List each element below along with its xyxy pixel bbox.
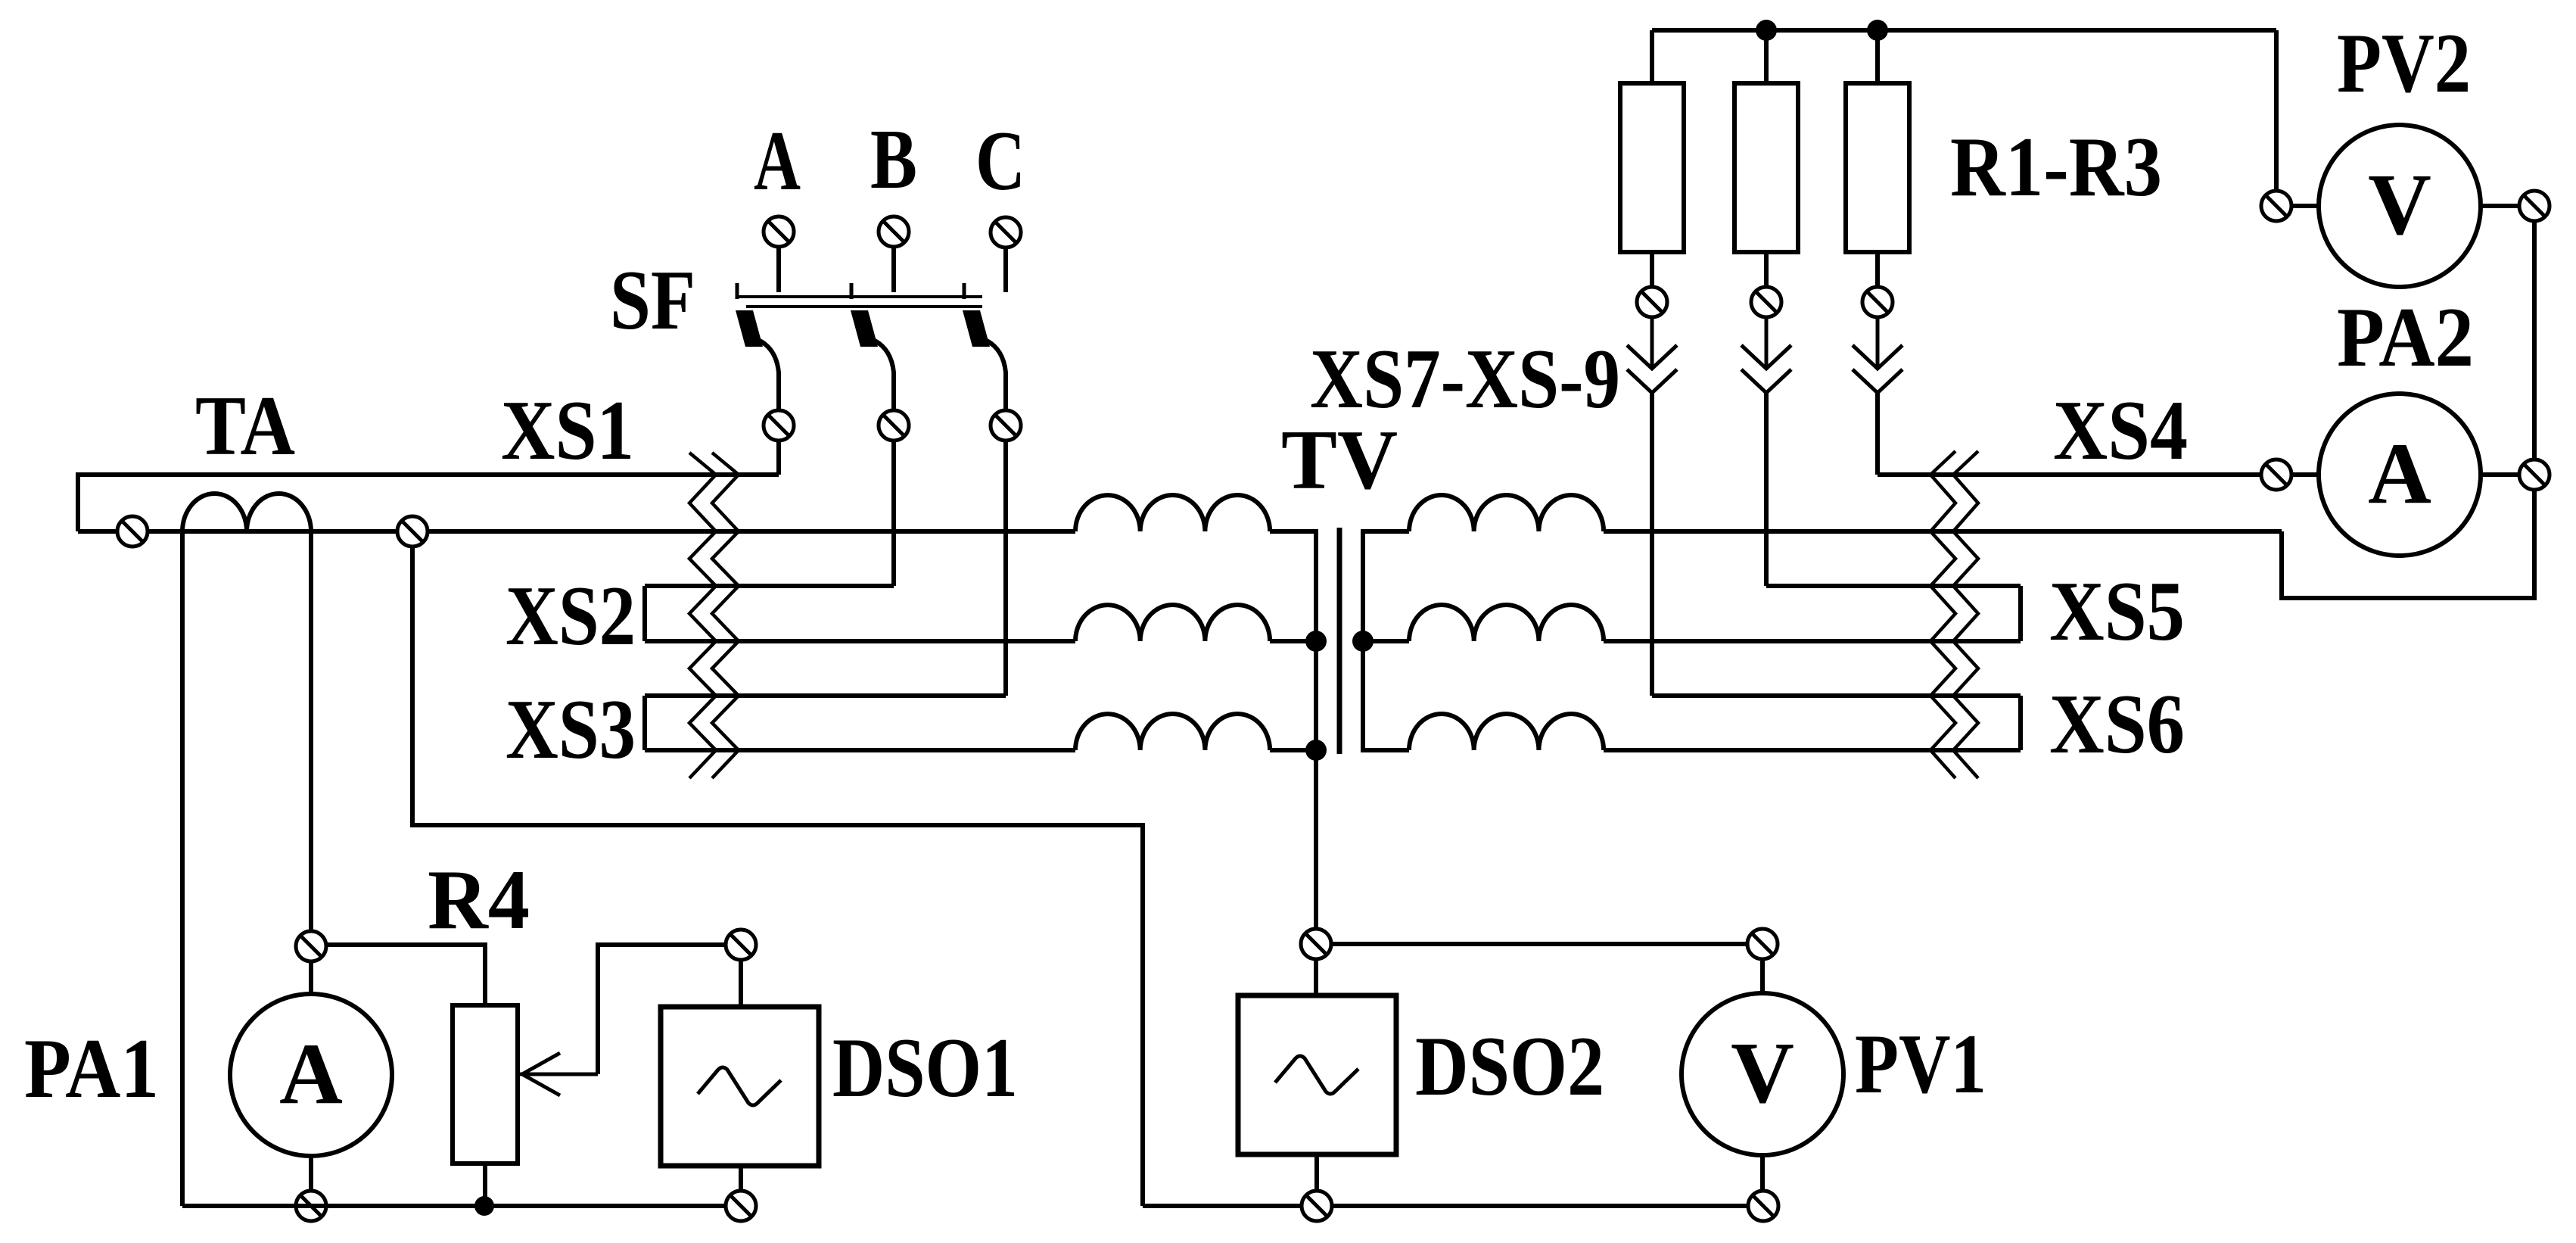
connector XS8 plug arrows <box>1765 318 1769 369</box>
breaker SF pole C contact wedge <box>963 310 990 347</box>
terminal DSO2 bottom <box>1302 1191 1332 1221</box>
resistor R3 <box>1875 30 1880 83</box>
wire TA secondary lead left (to PA1 bottom row) <box>180 531 185 1206</box>
terminal DSO2 top <box>1301 929 1331 959</box>
connector XS7 plug arrows <box>1876 318 1880 369</box>
wire DSO1 top terminal to box <box>739 961 743 1007</box>
wire R2 to row <box>1764 393 1769 586</box>
svg-text:XS3: XS3 <box>506 683 636 777</box>
junction top bus R2 <box>1756 20 1777 41</box>
svg-text:V: V <box>1731 1025 1794 1122</box>
terminal on bus left of TA <box>117 516 148 547</box>
wire TA secondary lead right (to PA1 top terminal) <box>309 531 313 931</box>
ammeter PA2 <box>2319 394 2481 556</box>
wire TA mid tap down, across and down to DSO2/PV1 bottom row <box>412 547 1143 1206</box>
svg-text:XS2: XS2 <box>506 569 636 663</box>
terminal DSO1 top <box>726 930 756 960</box>
svg-text:R4: R4 <box>428 853 530 947</box>
svg-text:A: A <box>279 1026 343 1123</box>
svg-text:PA2: PA2 <box>2337 291 2474 385</box>
resistor R2 <box>1764 30 1769 83</box>
breaker SF pole B contact wedge <box>851 310 878 347</box>
breaker SF pole A moving arm <box>760 341 779 410</box>
wire row from R2 <box>1766 584 2021 588</box>
transformer TV primary top coil <box>1075 495 1270 531</box>
wire TV secondary common vertical <box>1361 529 1365 752</box>
terminal PA2 left (XS4) <box>2261 460 2291 490</box>
svg-text:V: V <box>2368 157 2431 254</box>
wire PV2 feed from top bus <box>2274 30 2279 191</box>
wire XS3 bracket vertical <box>642 696 647 750</box>
svg-text:SF: SF <box>610 254 695 347</box>
wire PV1 meter to bottom terminal <box>1760 1155 1765 1191</box>
terminal on bus right of TA <box>397 516 428 547</box>
wire PV2 left terminal to meter <box>2291 204 2319 208</box>
breaker SF pole A contact wedge <box>736 310 763 347</box>
wire row from R1 <box>1652 693 2021 698</box>
connector XS4-XS6 zigzag line 2 <box>1953 451 1978 778</box>
wire XS2 top row to breaker pole B <box>645 584 894 588</box>
junction primary star middle <box>1305 631 1327 652</box>
terminal below pole B / wire drop to XS2 row <box>891 441 896 586</box>
svg-text:TA: TA <box>195 379 295 473</box>
svg-text:TV: TV <box>1281 413 1398 507</box>
terminal phase A <box>776 247 781 292</box>
wire XS3 top row to breaker pole C <box>645 693 1006 698</box>
terminal DSO1 bottom <box>726 1191 756 1221</box>
terminal PV1 bottom <box>1748 1191 1778 1221</box>
voltmeter PV1 <box>1682 993 1843 1155</box>
wire main bus row (TA primary line) <box>78 529 1075 534</box>
junction R4 bottom row <box>474 1196 494 1216</box>
wire wiper to DSO1 top terminal <box>598 945 725 1074</box>
terminal PV1 top <box>1747 929 1778 959</box>
wire PA2 left terminal to meter <box>2291 472 2319 477</box>
wire R3 to row <box>1875 393 1880 475</box>
wire XS3 bottom row to TV primary bottom coil <box>645 748 1075 752</box>
transformer TV primary middle coil <box>1075 605 1270 641</box>
terminal below R1 <box>1637 287 1667 317</box>
svg-text:PA1: PA1 <box>24 1022 159 1116</box>
breaker SF pole B moving arm <box>875 341 894 410</box>
svg-text:R1-R3: R1-R3 <box>1950 120 2162 214</box>
junction primary star bottom <box>1305 740 1327 761</box>
svg-text:XS1: XS1 <box>501 384 634 478</box>
rheostat R4 wiper arrow <box>518 1053 598 1095</box>
transformer TV secondary bottom coil / wire to XS6 <box>1363 748 1409 752</box>
breaker SF tick B <box>850 283 854 299</box>
svg-text:XS4: XS4 <box>2053 384 2188 478</box>
transformer TV primary bottom coil <box>1075 714 1270 750</box>
terminal PA1 top <box>296 931 326 961</box>
wire PV1 top terminal to meter <box>1760 960 1765 994</box>
wire XS1 row from left bend to breaker pole A <box>78 472 779 477</box>
svg-text:A: A <box>754 114 801 208</box>
breaker SF linkage bar (double line) <box>736 297 982 307</box>
wire bottom-right common row <box>1143 1204 1763 1208</box>
svg-text:C: C <box>975 114 1025 208</box>
wire XS5 bracket vertical <box>2018 586 2023 641</box>
transformer TV core <box>1337 528 1342 754</box>
breaker SF tick A <box>736 283 739 299</box>
connector XS4-XS6 zigzag line 1 <box>1930 451 1955 778</box>
wire row from R3 <box>1878 472 2260 477</box>
breaker SF pole C moving arm <box>987 341 1006 410</box>
svg-text:PV2: PV2 <box>2337 17 2471 111</box>
wire right loop vertical PV2 to PA2 <box>2532 222 2537 460</box>
wire PA2 meter to right terminal <box>2481 472 2519 477</box>
wire PV2 meter to right terminal <box>2481 204 2519 208</box>
svg-text:XS7-XS-9: XS7-XS-9 <box>1310 332 1620 426</box>
transformer TV secondary top coil / wire to right loop <box>1363 529 1409 534</box>
svg-text:XS5: XS5 <box>2049 565 2185 659</box>
wire R4 bottom to common row <box>483 1164 487 1206</box>
wire PA1 top terminal to meter <box>309 962 313 995</box>
wire DSO2 box to bottom terminal <box>1314 1154 1319 1191</box>
voltmeter PV2 <box>2319 125 2481 287</box>
junction secondary common middle <box>1352 631 1374 652</box>
terminal phase C <box>1003 248 1008 292</box>
terminal below pole C / wire drop to XS3 row <box>1003 441 1008 696</box>
svg-text:DSO1: DSO1 <box>832 1021 1018 1115</box>
svg-text:A: A <box>2368 425 2431 522</box>
terminal XS1 plug (below pole A) <box>776 441 781 475</box>
terminal PV2 left <box>2261 191 2291 221</box>
oscilloscope DSO2 box <box>1238 995 1396 1154</box>
terminal PV2 right <box>2519 191 2550 221</box>
connector XS9 plug arrows <box>1650 318 1654 369</box>
breaker SF tick C <box>963 283 966 299</box>
wire DSO2 top terminal to box <box>1314 960 1318 995</box>
wire DSO2 top terminal to PV1 top terminal <box>1332 942 1747 946</box>
svg-text:B: B <box>870 113 917 207</box>
terminal PA2 right <box>2519 460 2550 490</box>
wire XS2 bottom row to TV primary middle coil <box>645 639 1075 643</box>
wire R1 to row <box>1650 393 1654 696</box>
resistor R1 <box>1650 30 1654 83</box>
oscilloscope DSO1 box <box>661 1007 819 1166</box>
svg-text:PV1: PV1 <box>1855 1017 1986 1111</box>
rheostat R4 <box>453 1005 518 1164</box>
wire left bend vertical <box>76 472 80 531</box>
wire XS2 bracket vertical <box>642 586 647 641</box>
wire PA1 top terminal to R4 top <box>327 945 485 1005</box>
terminal below R3 <box>1862 287 1893 317</box>
transformer TV secondary middle coil / wire to XS5 <box>1363 639 1409 643</box>
ammeter PA1 <box>230 994 392 1156</box>
wire TV primary star point vertical <box>1314 529 1318 929</box>
junction top bus R3 <box>1867 20 1888 41</box>
terminal PA1 bottom <box>296 1191 326 1221</box>
connector XS1-XS3 zigzag line 1 <box>689 453 716 778</box>
wire bottom-left common row <box>182 1204 741 1208</box>
oscilloscope DSO2 waveform <box>1275 1056 1358 1094</box>
connector XS1-XS3 zigzag line 2 <box>712 453 739 778</box>
current transformer TA (primary winding arcs) <box>182 494 311 531</box>
terminal below R2 <box>1751 287 1781 317</box>
wire top bus from R1 to PV2 <box>1652 28 2276 33</box>
wire DSO1 box to bottom terminal <box>739 1166 743 1191</box>
wire PA1 meter to bottom terminal <box>309 1156 313 1191</box>
svg-text:XS6: XS6 <box>2049 678 2185 771</box>
svg-text:DSO2: DSO2 <box>1415 1020 1604 1114</box>
wire right loop bottom (secondary return) <box>2282 491 2534 598</box>
terminal phase B <box>891 247 896 292</box>
oscilloscope DSO1 waveform <box>698 1067 781 1105</box>
wire XS6 bracket vertical <box>2018 696 2023 750</box>
